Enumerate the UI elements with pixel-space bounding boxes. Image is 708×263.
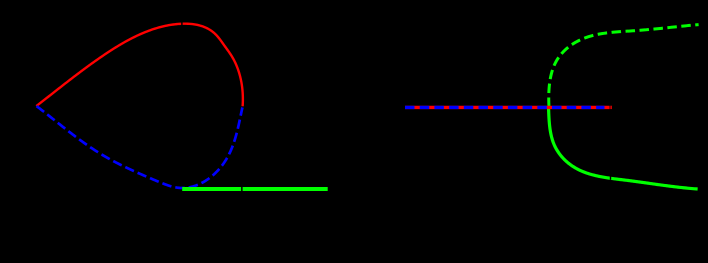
red solid horizontal branch	[405, 106, 610, 109]
green solid equilibrium line	[182, 187, 328, 191]
red solid upper loop branch	[36, 24, 243, 107]
blue dashed overlay on horizontal branch	[405, 106, 605, 109]
gap in green line	[241, 187, 243, 192]
red tip tick of horizontal branch	[610, 106, 611, 109]
blue dashed lower loop branch	[37, 106, 243, 188]
gap in lower green branch	[610, 175, 611, 179]
green dashed upper cycle branch	[549, 25, 699, 107]
gap at red apex	[181, 21, 182, 26]
green solid lower cycle branch	[549, 108, 698, 189]
